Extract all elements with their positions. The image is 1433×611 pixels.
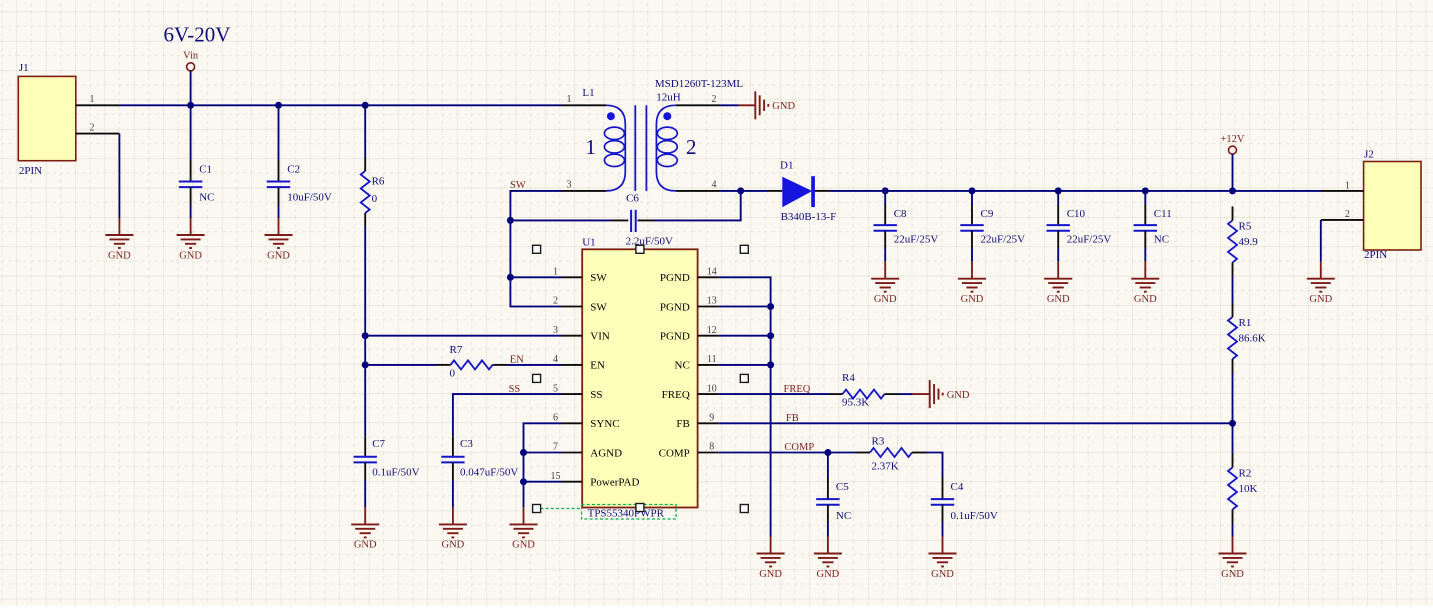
svg-text:R5: R5 — [1239, 220, 1252, 232]
wire VIN net — [365, 335, 561, 337]
capacitor C10 — [1047, 191, 1112, 262]
svg-text:1: 1 — [567, 94, 572, 105]
svg-text:0: 0 — [450, 368, 456, 380]
wire FREQ net — [718, 393, 828, 395]
ground PGND bus — [757, 537, 785, 567]
svg-text:PGND: PGND — [660, 301, 690, 313]
svg-text:C2: C2 — [287, 163, 300, 175]
power port Vin — [183, 51, 199, 106]
junction R6/VIN — [362, 332, 369, 339]
svg-text:J1: J1 — [19, 62, 29, 74]
svg-text:GND: GND — [1309, 294, 1332, 305]
svg-text:2: 2 — [686, 135, 697, 159]
svg-text:GND: GND — [931, 569, 954, 580]
wire +12V output net — [830, 190, 1321, 192]
svg-text:GND: GND — [512, 540, 535, 551]
resistor R6 — [361, 105, 385, 227]
svg-text:C9: C9 — [981, 208, 994, 220]
svg-text:1: 1 — [553, 267, 558, 278]
svg-text:4: 4 — [553, 354, 558, 365]
svg-text:NC: NC — [1154, 234, 1169, 246]
resistor R5 — [1228, 206, 1258, 276]
svg-text:R7: R7 — [450, 344, 463, 356]
connector J1 — [18, 62, 119, 177]
junction PGND pin11 — [767, 361, 774, 368]
wire R5 to R1 — [1232, 276, 1234, 303]
svg-text:C5: C5 — [836, 481, 849, 493]
U1 left pin 15 PowerPAD — [551, 471, 640, 489]
U1 right pin 13 PGND — [660, 296, 718, 314]
U1 left pin 6 SYNC — [553, 413, 620, 431]
svg-text:J2: J2 — [1364, 148, 1374, 160]
svg-text:C8: C8 — [894, 208, 907, 220]
U1 right pin 8 COMP — [659, 442, 719, 460]
capacitor C8 — [874, 191, 939, 262]
svg-text:2PIN: 2PIN — [19, 165, 42, 177]
svg-text:R2: R2 — [1239, 468, 1252, 480]
svg-text:AGND: AGND — [590, 447, 622, 459]
junction R6/EN — [362, 361, 369, 368]
svg-text:GND: GND — [442, 540, 465, 551]
svg-text:2: 2 — [90, 122, 95, 133]
junction R6 — [362, 102, 369, 109]
resistor R1 — [1228, 303, 1266, 373]
wire L1 pin4 to D1 — [720, 190, 768, 192]
svg-text:8: 8 — [709, 442, 714, 453]
ground C4 — [929, 537, 957, 567]
junction AGND — [520, 449, 527, 456]
svg-text:10K: 10K — [1239, 483, 1258, 495]
svg-text:1: 1 — [585, 135, 596, 159]
wire COMP net — [718, 452, 856, 454]
svg-text:GND: GND — [772, 101, 795, 112]
svg-text:6V-20V: 6V-20V — [164, 22, 231, 46]
svg-text:14: 14 — [707, 267, 717, 278]
svg-text:NC: NC — [675, 360, 690, 372]
ground AGND — [510, 507, 538, 537]
svg-text:L1: L1 — [582, 87, 594, 99]
wire R1 to FB junction — [1232, 373, 1234, 454]
svg-text:12: 12 — [707, 325, 717, 336]
wire VIN input net — [119, 104, 561, 106]
wire PGND bus — [718, 277, 770, 536]
capacitor C5 — [816, 453, 851, 537]
svg-text:PowerPAD: PowerPAD — [590, 477, 639, 489]
ground C3 — [439, 507, 467, 537]
svg-text:C7: C7 — [372, 438, 385, 450]
wire SYNC/AGND/PowerPAD net — [524, 423, 562, 507]
junction C8 — [882, 187, 889, 194]
svg-text:U1: U1 — [582, 236, 595, 248]
svg-text:3: 3 — [567, 179, 572, 190]
svg-text:22uF/25V: 22uF/25V — [1067, 234, 1112, 246]
svg-text:C11: C11 — [1154, 208, 1172, 220]
capacitor C2 — [267, 105, 332, 218]
U1 left pin 2 SW — [553, 296, 607, 314]
svg-text:+12V: +12V — [1220, 134, 1244, 145]
svg-text:GND: GND — [947, 390, 970, 401]
svg-text:EN: EN — [510, 355, 524, 366]
svg-text:11: 11 — [707, 354, 717, 365]
svg-text:R4: R4 — [842, 372, 855, 384]
junction PGND pin13 — [767, 303, 774, 310]
svg-text:FB: FB — [786, 413, 799, 424]
svg-text:0: 0 — [372, 193, 378, 205]
svg-text:GND: GND — [267, 250, 290, 261]
U1 left pin 4 EN — [553, 354, 605, 372]
diode D1 — [768, 160, 836, 223]
svg-text:2.37K: 2.37K — [872, 460, 899, 472]
svg-text:13: 13 — [707, 296, 717, 307]
junction C9 — [969, 187, 976, 194]
svg-text:D1: D1 — [780, 160, 793, 172]
svg-text:22uF/25V: 22uF/25V — [894, 234, 939, 246]
junction FB divider — [1229, 420, 1236, 427]
svg-text:GND: GND — [1134, 294, 1157, 305]
svg-text:2.2uF/50V: 2.2uF/50V — [626, 236, 673, 248]
junction +12V/R5 — [1229, 187, 1236, 194]
connector J2 — [1321, 148, 1421, 260]
svg-text:GND: GND — [961, 294, 984, 305]
capacitor C6 — [611, 192, 673, 247]
inductor L1 (coupled) — [562, 78, 744, 191]
U1 left pin 1 SW — [553, 267, 607, 285]
junction COMP/C5 — [824, 449, 831, 456]
junction PGND pin12 — [767, 332, 774, 339]
ground FREQ — [913, 380, 943, 408]
ground C5 — [814, 537, 842, 567]
ground C11 — [1131, 262, 1159, 292]
svg-text:GND: GND — [108, 250, 131, 261]
svg-text:2: 2 — [712, 94, 717, 105]
ground C7 — [351, 507, 379, 537]
svg-text:NC: NC — [199, 192, 214, 204]
svg-text:FB: FB — [676, 418, 689, 430]
svg-text:GND: GND — [817, 569, 840, 580]
wire C6 branch — [510, 191, 740, 221]
capacitor C4 — [931, 477, 998, 537]
ground R2 — [1219, 537, 1247, 567]
svg-text:C1: C1 — [199, 163, 212, 175]
svg-text:10uF/50V: 10uF/50V — [287, 192, 332, 204]
svg-text:GND: GND — [354, 540, 377, 551]
svg-text:SW: SW — [510, 180, 526, 191]
svg-text:C6: C6 — [626, 192, 639, 204]
svg-text:COMP: COMP — [659, 447, 690, 459]
junction SW/C6 — [507, 217, 514, 224]
U1 left pin 7 AGND — [553, 442, 622, 460]
U1 part name TPS55340PWPR — [540, 505, 676, 520]
ground C8 — [871, 262, 899, 292]
U1 right pin 11 NC — [675, 354, 719, 372]
svg-text:GND: GND — [874, 294, 897, 305]
wire R2 to ground — [1232, 524, 1234, 537]
svg-text:VIN: VIN — [590, 331, 610, 343]
svg-text:3: 3 — [553, 325, 558, 336]
capacitor C7 — [354, 437, 420, 508]
svg-text:Vin: Vin — [183, 51, 199, 62]
svg-text:C10: C10 — [1067, 208, 1086, 220]
svg-text:GND: GND — [1047, 294, 1070, 305]
ground C2 — [265, 218, 293, 248]
svg-text:22uF/25V: 22uF/25V — [981, 234, 1026, 246]
svg-text:86.6K: 86.6K — [1239, 333, 1266, 345]
svg-text:C3: C3 — [460, 438, 473, 450]
junction L1 pin4 / C6 — [737, 187, 744, 194]
junction C2 — [275, 102, 282, 109]
svg-text:2: 2 — [1345, 209, 1350, 220]
U1 left pin 5 SS — [553, 383, 603, 401]
svg-text:2PIN: 2PIN — [1364, 249, 1387, 261]
svg-text:2: 2 — [553, 296, 558, 307]
svg-text:7: 7 — [553, 442, 558, 453]
svg-text:PGND: PGND — [660, 272, 690, 284]
svg-text:GND: GND — [759, 569, 782, 580]
svg-text:4: 4 — [712, 179, 717, 190]
wire R4 to ground — [899, 393, 913, 395]
U1 selection handles — [533, 245, 749, 512]
svg-text:SW: SW — [590, 272, 607, 284]
junction C10 — [1055, 187, 1062, 194]
resistor R4 — [829, 372, 899, 408]
junction C11 — [1142, 187, 1149, 194]
wire SW net — [510, 191, 561, 307]
U1 right pin 12 PGND — [660, 325, 718, 343]
U1 right pin 10 FREQ — [662, 383, 719, 401]
junction PowerPAD — [520, 478, 527, 485]
svg-text:49.9: 49.9 — [1239, 236, 1259, 248]
junction SW/pin1 — [507, 274, 514, 281]
capacitor C9 — [960, 191, 1025, 262]
svg-text:1: 1 — [1345, 180, 1350, 191]
svg-text:1: 1 — [90, 94, 95, 105]
wire SS net — [453, 394, 562, 437]
svg-text:10: 10 — [707, 383, 717, 394]
svg-text:C4: C4 — [951, 481, 964, 493]
ground L1 pin2 — [738, 91, 768, 119]
svg-text:EN: EN — [590, 360, 605, 372]
svg-text:PGND: PGND — [660, 331, 690, 343]
svg-text:R3: R3 — [872, 436, 885, 448]
wire R6 to VIN/EN/C7 — [364, 227, 366, 437]
U1 right pin 14 PGND — [660, 267, 718, 285]
junction Vin/C1 — [187, 102, 194, 109]
resistor R2 — [1228, 454, 1258, 524]
svg-text:SW: SW — [590, 301, 607, 313]
ground J2 pin2 — [1307, 262, 1335, 292]
svg-text:R1: R1 — [1239, 317, 1252, 329]
capacitor C11 — [1134, 191, 1172, 262]
wire J2 pin2 to ground — [1320, 220, 1322, 262]
svg-text:5: 5 — [553, 383, 558, 394]
svg-text:12uH: 12uH — [656, 91, 681, 103]
svg-text:B340B-13-F: B340B-13-F — [781, 211, 837, 223]
svg-text:0.1uF/50V: 0.1uF/50V — [372, 467, 419, 479]
svg-text:SS: SS — [509, 384, 521, 395]
resistor R7 — [437, 344, 507, 380]
svg-text:SS: SS — [590, 389, 602, 401]
svg-text:GND: GND — [179, 250, 202, 261]
svg-text:TPS55340PWPR: TPS55340PWPR — [588, 507, 665, 519]
U1 left pin 3 VIN — [553, 325, 610, 343]
resistor R3 — [856, 436, 926, 473]
svg-text:R6: R6 — [372, 176, 385, 188]
wire R3 to C4 — [926, 453, 943, 478]
svg-text:FREQ: FREQ — [784, 384, 811, 395]
capacitor C3 — [441, 437, 518, 508]
op-amp U1 TPS55340PWPR body — [582, 236, 697, 507]
wire J1 pin2 to ground — [118, 134, 120, 218]
wire EN net — [365, 364, 561, 366]
svg-text:FREQ: FREQ — [662, 389, 690, 401]
svg-text:6: 6 — [553, 413, 558, 424]
svg-text:SYNC: SYNC — [590, 418, 619, 430]
ground C10 — [1044, 262, 1072, 292]
svg-text:9: 9 — [709, 413, 714, 424]
ground C1 — [177, 218, 205, 248]
svg-text:15: 15 — [551, 471, 561, 482]
svg-text:MSD1260T-123ML: MSD1260T-123ML — [655, 78, 743, 90]
svg-text:GND: GND — [1221, 569, 1244, 580]
svg-text:NC: NC — [836, 510, 851, 522]
svg-text:0.047uF/50V: 0.047uF/50V — [460, 467, 518, 479]
ground J1 pin2 — [105, 218, 133, 248]
capacitor C1 — [179, 105, 215, 218]
svg-text:0.1uF/50V: 0.1uF/50V — [951, 510, 998, 522]
ground C9 — [958, 262, 986, 292]
wire FB net — [718, 422, 1232, 424]
U1 right pin 9 FB — [676, 413, 718, 431]
wire L1 pin2 to ground — [720, 104, 738, 106]
power port +12V — [1220, 134, 1244, 191]
svg-text:95.3K: 95.3K — [842, 396, 869, 408]
svg-text:COMP: COMP — [784, 442, 814, 453]
